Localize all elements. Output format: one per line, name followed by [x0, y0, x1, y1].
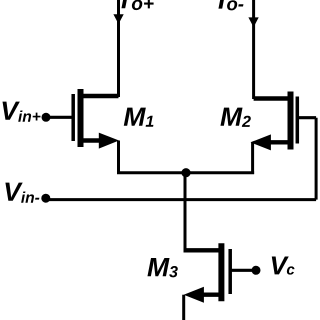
transistor M3 gate bar [228, 249, 232, 294]
label M1 [124, 108, 154, 127]
arrowhead Io+ current direction [113, 14, 123, 24]
wire tail to M3 drain [184, 248, 222, 252]
transistor M2 drain lead [254, 96, 291, 100]
transistor M2 gate bar [296, 97, 300, 144]
transistor M3 source lead [201, 293, 221, 297]
transistor M1 drain lead [81, 94, 119, 98]
label Vc [272, 257, 295, 275]
label Io- [218, 0, 243, 10]
wire gate M2 to right edge [297, 116, 316, 119]
transistor M1 channel bar [78, 89, 84, 147]
wire right edge down to Vin- line [315, 118, 318, 200]
wire drain M1 to Io+ [117, 0, 120, 97]
arrowhead Io- current direction [248, 17, 258, 27]
wire tail node down to M3 [184, 173, 187, 251]
label Io+ [121, 0, 153, 10]
transistor M1 gate bar [71, 94, 75, 141]
wire joining M1 and M2 sources [117, 171, 254, 174]
label M2 [220, 108, 250, 127]
transistor M3 source arrow [184, 287, 204, 303]
transistor M2 channel bar [288, 92, 294, 150]
label M3 [147, 258, 177, 277]
node Vin+ terminal dot [42, 113, 51, 122]
wire drain M2 to Io- [252, 0, 255, 99]
label Vin- [5, 183, 39, 203]
transistor M2 source lead [270, 140, 291, 144]
transistor M3 channel bar [218, 243, 224, 301]
node tail junction dot [181, 168, 190, 177]
wire M1 source down [117, 141, 120, 175]
node Vin- terminal dot [41, 194, 50, 203]
label Vin+ [3, 102, 41, 122]
wire M2 source down [251, 142, 254, 174]
transistor M2 source arrow [251, 134, 271, 150]
wire Vin+ to gate of M1 [46, 116, 72, 119]
node Vc terminal dot [252, 266, 261, 275]
wire M3 source down to edge [182, 295, 185, 320]
wire Vin- horizontal line [46, 198, 316, 201]
transistor M1 source arrow [99, 133, 119, 149]
wire gate M3 to Vc [230, 269, 256, 272]
transistor M1 source lead [81, 138, 102, 142]
